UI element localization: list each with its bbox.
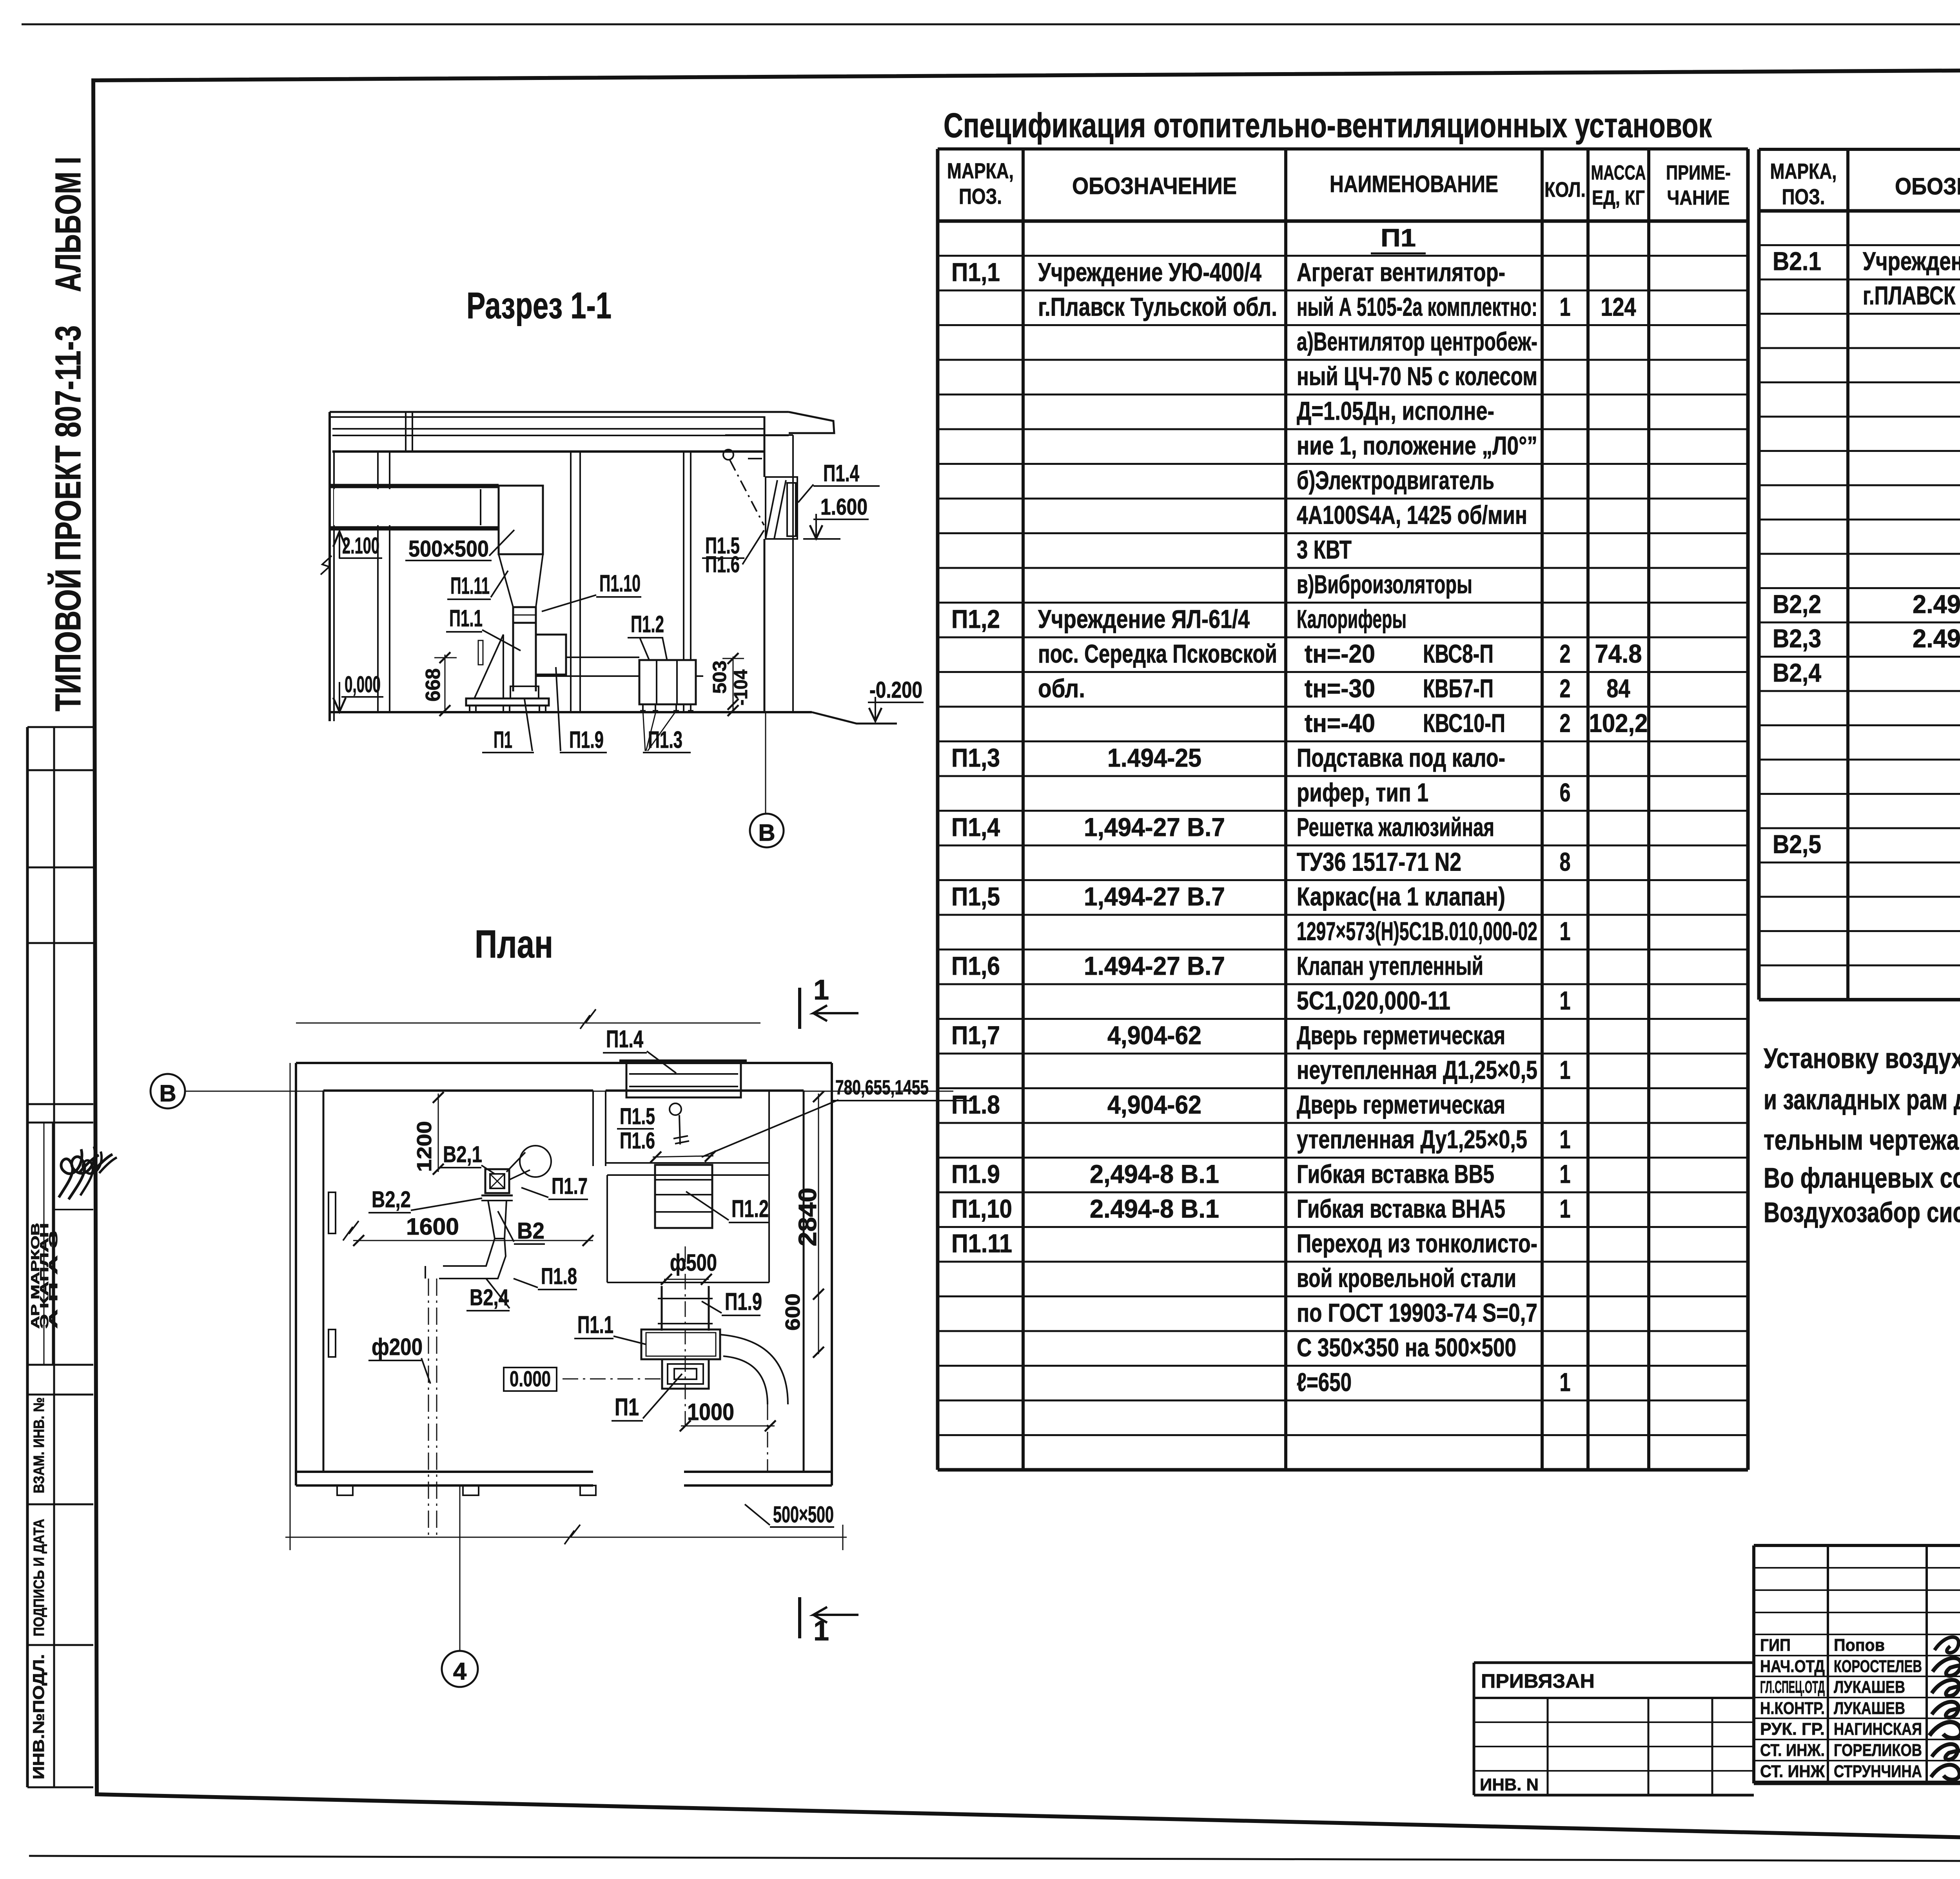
svg-text:а)Вентилятор центробеж-: а)Вентилятор центробеж- [1297,327,1537,356]
svg-text:П1.1: П1.1 [449,605,483,631]
left stamp column [27,727,93,1787]
svg-text:1000: 1000 [687,1399,734,1425]
svg-text:П1,6: П1,6 [951,951,1000,980]
svg-text:1.494-27 В.7: 1.494-27 В.7 [1084,951,1225,980]
svg-text:2.494-8 В.1: 2.494-8 В.1 [1913,624,1960,653]
svg-text:503: 503 [710,660,730,694]
svg-text:В2: В2 [517,1218,544,1244]
svg-text:1: 1 [813,1615,829,1647]
svg-text:ние 1, положение „Л0°”: ние 1, положение „Л0°” [1297,431,1537,460]
svg-text:tн=-20: tн=-20 [1305,639,1375,668]
svg-text:tн=-40: tн=-40 [1305,709,1375,738]
svg-text:2: 2 [1560,674,1571,703]
svg-text:668: 668 [422,668,445,702]
svg-text:Разрез 1-1: Разрез 1-1 [466,285,612,326]
svg-text:ф200: ф200 [372,1334,423,1360]
svg-text:2840: 2840 [793,1188,822,1246]
P1.9 / P1.1 / P1 (plan) [661,1286,663,1331]
svg-text:П1.2: П1.2 [731,1195,769,1222]
svg-text:С 350×350 на 500×500: С 350×350 на 500×500 [1297,1333,1516,1362]
svg-text:тельным чертежам: тельным чертежам [1764,1124,1960,1156]
svg-text:П1.6: П1.6 [705,552,740,577]
svg-text:П1.8: П1.8 [541,1264,577,1289]
svg-text:КВС10-П: КВС10-П [1423,709,1505,738]
svg-text:П1.1: П1.1 [577,1311,613,1339]
svg-text:П1.4: П1.4 [606,1026,643,1053]
svg-text:МАССА: МАССА [1591,161,1646,184]
svg-text:ЕД, КГ: ЕД, КГ [1592,187,1645,209]
svg-text:П1.9: П1.9 [725,1288,762,1315]
svg-text:74.8: 74.8 [1595,639,1642,668]
svg-text:В2,1: В2,1 [443,1142,482,1167]
svg-text:П1,7: П1,7 [951,1021,1000,1050]
svg-text:102,2: 102,2 [1589,709,1648,738]
cut marks 1-1 [798,988,801,1029]
svg-text:Учреждение ЯЛ-61/4: Учреждение ЯЛ-61/4 [1038,604,1250,633]
svg-text:2.100: 2.100 [342,533,379,559]
svg-text:вой кровельной стали: вой кровельной стали [1297,1264,1516,1293]
svg-text:-104: -104 [731,669,751,706]
svg-text:МАРКА,: МАРКА, [947,158,1014,183]
svg-text:Калориферы: Калориферы [1297,604,1406,633]
svg-text:Дверь герметическая: Дверь герметическая [1297,1090,1505,1119]
svg-text:1: 1 [1560,917,1571,946]
svg-text:П1,1: П1,1 [951,258,1000,287]
svg-text:ПРИВЯЗАН: ПРИВЯЗАН [1481,1670,1595,1692]
svg-text:1: 1 [1560,1125,1571,1154]
svg-text:КОРОСТЕЛЕВ: КОРОСТЕЛЕВ [1834,1657,1922,1676]
svg-text:ПОЗ.: ПОЗ. [1782,184,1825,209]
svg-text:П1.9: П1.9 [569,727,604,753]
svg-text:Учреждение УЮ-400/4: Учреждение УЮ-400/4 [1038,258,1261,287]
svg-text:Д=1.05Дн, исполне-: Д=1.05Дн, исполне- [1297,396,1494,425]
svg-text:tн=-30: tн=-30 [1305,674,1375,703]
svg-text:В2.1: В2.1 [1773,247,1821,276]
svg-text:г.ПЛАВСК Тульской обл.: г.ПЛАВСК Тульской обл. [1863,281,1960,310]
damper pulley and chain [723,450,733,460]
svg-text:4: 4 [453,1658,467,1685]
svg-text:неутепленная Д1,25×0,5: неутепленная Д1,25×0,5 [1297,1056,1537,1085]
svg-text:1: 1 [1560,1194,1571,1223]
svg-text:П1.10: П1.10 [599,570,641,597]
svg-text:1: 1 [1560,1056,1571,1085]
svg-text:Клапан утепленный: Клапан утепленный [1297,951,1483,980]
svg-text:500×500: 500×500 [773,1502,834,1527]
svg-text:ЛУКАШЕВ: ЛУКАШЕВ [1834,1699,1905,1718]
svg-text:Подставка под кало-: Подставка под кало- [1297,743,1505,772]
svg-text:Гибкая вставка ВВ5: Гибкая вставка ВВ5 [1297,1159,1494,1188]
svg-text:ный А 5105-2а комплектно:: ный А 5105-2а комплектно: [1297,292,1537,321]
svg-text:2: 2 [1560,709,1571,738]
svg-text:П1.4: П1.4 [823,460,859,486]
title block [1754,1545,1960,1783]
svg-text:1: 1 [1560,1159,1571,1188]
svg-text:СТРУНЧИНА: СТРУНЧИНА [1834,1762,1922,1781]
svg-text:2.494-8 В.1: 2.494-8 В.1 [1090,1194,1219,1223]
duct 500x500 [334,489,499,525]
svg-text:ЧАНИЕ: ЧАНИЕ [1667,187,1730,209]
svg-text:В2,3: В2,3 [1773,624,1821,653]
svg-text:1: 1 [1560,292,1571,321]
svg-text:2: 2 [1560,639,1571,668]
svg-text:ГИП: ГИП [1760,1636,1791,1655]
heater P1.2 (plan) [655,1165,712,1228]
svg-text:ТУ36 1517-71 N2: ТУ36 1517-71 N2 [1297,847,1461,876]
svg-text:1,494-27 В.7: 1,494-27 В.7 [1084,813,1225,842]
svg-text:В2,4: В2,4 [470,1285,509,1310]
signatures [1935,1637,1960,1653]
svg-text:В2,5: В2,5 [1773,830,1821,859]
svg-text:П1.6: П1.6 [620,1128,655,1154]
svg-text:124: 124 [1601,292,1636,321]
svg-text:0,000: 0,000 [345,672,381,697]
svg-text:ВЗАМ. ИНВ. №: ВЗАМ. ИНВ. № [31,1397,47,1493]
svg-text:П1,10: П1,10 [951,1194,1012,1223]
svg-text:П1.2: П1.2 [631,611,664,637]
svg-text:П1.11: П1.11 [951,1229,1012,1258]
svg-text:утепленная Ду1,25×0,5: утепленная Ду1,25×0,5 [1297,1125,1527,1154]
svg-text:А П А З: А П А З [47,1231,60,1329]
svg-text:1.494-25: 1.494-25 [1107,743,1201,772]
svg-text:КВС8-П: КВС8-П [1423,639,1494,668]
svg-text:ЛУКАШЕВ: ЛУКАШЕВ [1834,1678,1905,1697]
svg-text:Спецификация отопительно-вент: Спецификация отопительно-вентиляционных … [944,106,1712,145]
svg-text:4,904-62: 4,904-62 [1107,1021,1201,1050]
svg-text:1297×573(Н)5С1В.010,000-02: 1297×573(Н)5С1В.010,000-02 [1297,917,1537,946]
svg-text:780,655,1455: 780,655,1455 [835,1076,929,1099]
svg-text:Каркас(на 1 клапан): Каркас(на 1 клапан) [1297,882,1505,911]
svg-text:1,494-27 В.7: 1,494-27 В.7 [1084,882,1225,911]
svg-text:КОЛ.: КОЛ. [1544,178,1586,201]
svg-text:3 КВТ: 3 КВТ [1297,535,1352,564]
svg-text:обл.: обл. [1038,674,1085,703]
svg-text:ПОЗ.: ПОЗ. [959,184,1002,209]
transition P1.11, flex P1.10, fan P1.1 [466,486,703,712]
svg-text:ПОДПИСЬ И ДАТА: ПОДПИСЬ И ДАТА [31,1519,47,1636]
svg-text:П1.3: П1.3 [648,727,682,753]
svg-text:5С1,020,000-11: 5С1,020,000-11 [1297,986,1450,1015]
svg-text:СТ. ИНЖ: СТ. ИНЖ [1760,1762,1825,1781]
svg-text:В2,2: В2,2 [372,1187,411,1212]
privyazan block [1474,1663,1754,1795]
svg-text:1: 1 [1560,986,1571,1015]
svg-text:НАГИНСКАЯ: НАГИНСКАЯ [1834,1719,1922,1739]
svg-text:ф500: ф500 [670,1250,717,1276]
svg-text:Переход из тонколисто-: Переход из тонколисто- [1297,1229,1537,1258]
intake P1.4 (plan) [619,1059,747,1062]
svg-text:600: 600 [782,1293,804,1331]
svg-text:4,904-62: 4,904-62 [1107,1090,1201,1119]
svg-text:Н.КОНТР.: Н.КОНТР. [1760,1699,1825,1718]
svg-text:П1.5: П1.5 [620,1104,655,1129]
svg-text:П1.8: П1.8 [951,1090,1000,1119]
svg-text:В: В [159,1080,176,1106]
svg-text:В2,4: В2,4 [1773,658,1821,687]
svg-text:4А100S4А, 1425 об/мин: 4А100S4А, 1425 об/мин [1297,501,1527,530]
svg-text:Гибкая вставка ВНА5: Гибкая вставка ВНА5 [1297,1194,1505,1223]
svg-text:П1,5: П1,5 [951,882,1000,911]
svg-text:1: 1 [1560,1368,1571,1397]
louvre grille P1.4 [766,477,797,539]
svg-text:по ГОСТ 19903-74 S=0,7: по ГОСТ 19903-74 S=0,7 [1297,1298,1537,1327]
svg-text:Попов: Попов [1834,1636,1885,1655]
svg-text:0.000: 0.000 [510,1366,551,1391]
svg-text:НАЧ.ОТД: НАЧ.ОТД [1760,1657,1825,1676]
svg-text:П1: П1 [615,1394,639,1421]
svg-text:1.600: 1.600 [820,494,867,520]
svg-text:-0.200: -0.200 [869,677,922,703]
svg-text:ГЛ.СПЕЦ.ОТД: ГЛ.СПЕЦ.ОТД [1760,1678,1825,1697]
svg-text:ТИПОВОЙ ПРОЕКТ 807-11-3: ТИПОВОЙ ПРОЕКТ 807-11-3 [47,325,88,711]
svg-text:Агрегат вентилятор-: Агрегат вентилятор- [1297,258,1505,287]
svg-text:1200: 1200 [413,1121,436,1172]
svg-text:Во фланцевых соединениях уст: Во фланцевых соединениях установить рези… [1764,1163,1960,1194]
svg-text:в)Виброизоляторы: в)Виброизоляторы [1297,570,1472,599]
svg-text:ОБОЗНАЧЕНИЕ: ОБОЗНАЧЕНИЕ [1072,173,1237,199]
svg-text:В2,2: В2,2 [1773,589,1821,618]
svg-text:2.494-8 В.1: 2.494-8 В.1 [1913,589,1960,618]
svg-text:и закладных рам для крепления: и закладных рам для крепления оборудован… [1764,1084,1960,1115]
svg-text:ОБОЗНАЧЕНИЕ: ОБОЗНАЧЕНИЕ [1895,173,1960,200]
svg-text:ИНВ.№ПОДЛ.: ИНВ.№ПОДЛ. [30,1654,47,1779]
svg-text:П1,4: П1,4 [951,813,1000,842]
svg-text:П1,3: П1,3 [951,743,1000,772]
svg-text:8: 8 [1560,847,1571,876]
svg-text:Установку воздухоприемного у: Установку воздухоприемного устройства, г… [1764,1043,1960,1074]
svg-text:Дверь герметическая: Дверь герметическая [1297,1021,1505,1050]
heaters P1.2 and stands P1.3 [639,660,696,711]
svg-text:П1.7: П1.7 [552,1173,588,1199]
svg-text:1: 1 [813,974,829,1006]
svg-text:П1.11: П1.11 [450,573,490,599]
svg-text:РУК. ГР.: РУК. ГР. [1760,1719,1825,1739]
svg-text:КВБ7-П: КВБ7-П [1423,674,1494,703]
axis B bubble (plan) [151,1074,185,1108]
axis B bubble (section) [765,712,766,814]
svg-text:1600: 1600 [406,1213,459,1240]
axis 4 bubble [459,1485,461,1651]
svg-text:Воздухозабор системы П1 наход: Воздухозабор системы П1 находится в зеле… [1764,1197,1960,1228]
svg-text:Решетка жалюзийная: Решетка жалюзийная [1297,813,1494,842]
svg-text:пос. Середка Псковской: пос. Середка Псковской [1038,639,1277,668]
svg-text:СТ. ИНЖ.: СТ. ИНЖ. [1760,1741,1825,1760]
svg-text:6: 6 [1560,778,1571,807]
svg-text:ИНВ. N: ИНВ. N [1480,1775,1539,1794]
svg-text:84: 84 [1607,674,1630,703]
svg-text:ПРИМЕ-: ПРИМЕ- [1666,161,1731,184]
svg-text:П1.9: П1.9 [951,1159,1000,1188]
svg-text:г.Плавск Тульской обл.: г.Плавск Тульской обл. [1038,292,1277,321]
svg-text:В: В [758,820,775,846]
svg-text:П1,2: П1,2 [951,604,1000,633]
svg-text:ℓ=650: ℓ=650 [1297,1368,1352,1397]
svg-text:МАРКА,: МАРКА, [1770,159,1837,183]
svg-text:П1: П1 [1381,224,1416,252]
svg-text:б)Электродвигатель: б)Электродвигатель [1297,466,1494,495]
svg-text:П1: П1 [494,727,512,753]
svg-text:рифер, тип 1: рифер, тип 1 [1297,778,1428,807]
svg-text:ГОРЕЛИКОВ: ГОРЕЛИКОВ [1834,1741,1922,1760]
svg-text:НАИМЕНОВАНИЕ: НАИМЕНОВАНИЕ [1330,171,1498,197]
svg-text:500×500: 500×500 [408,536,489,562]
svg-text:ный ЦЧ-70 N5 с колесом: ный ЦЧ-70 N5 с колесом [1297,362,1537,391]
V2 exhaust assembly (plan) [485,1169,509,1193]
svg-text:2,494-8 В.1: 2,494-8 В.1 [1090,1159,1219,1188]
svg-text:АЛЬБОМ I: АЛЬБОМ I [48,157,88,292]
svg-text:План: План [475,922,553,966]
svg-text:Учреждение УЮ-400/4: Учреждение УЮ-400/4 [1863,247,1960,276]
